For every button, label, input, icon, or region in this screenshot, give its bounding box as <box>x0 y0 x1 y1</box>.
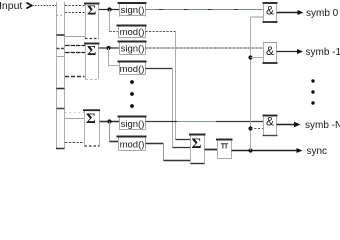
junction node <box>107 119 111 123</box>
wire tap7 to sumN <box>65 112 85 114</box>
wire tap2 to sum1 <box>65 12 85 14</box>
wire tap8 to sumN <box>65 118 85 120</box>
wire sync output <box>232 150 298 152</box>
junction node <box>248 126 252 130</box>
summation block sumN <box>83 110 100 146</box>
svg-text:sync: sync <box>307 146 328 157</box>
wire feedback to and2 <box>251 57 264 59</box>
svg-text:&: & <box>266 44 274 58</box>
wire feedback to and1 <box>251 16 264 18</box>
AND gate 2 <box>263 42 278 64</box>
summation block sum1 <box>84 4 100 39</box>
svg-text:sign(): sign() <box>121 44 145 55</box>
svg-text:Σ: Σ <box>192 136 202 152</box>
register cell divider <box>57 34 65 36</box>
mod() block N <box>117 136 147 151</box>
svg-text:sign(): sign() <box>121 5 145 16</box>
svg-text:&: & <box>266 114 274 128</box>
svg-text:&: & <box>266 3 274 17</box>
wire tap4 to sum2 <box>65 45 85 47</box>
register cell divider <box>57 108 65 110</box>
register cell divider (faint dots) <box>57 15 64 17</box>
svg-text:symb -N: symb -N <box>305 120 340 131</box>
wire tap9 to sumN <box>65 142 85 144</box>
wire tap3 to sum1 <box>65 36 85 38</box>
wire sum2 to sign2 <box>99 47 120 49</box>
wire junction down to mod1 <box>109 10 111 32</box>
wire signN to andN <box>146 121 178 123</box>
vertical ellipsis left <box>130 80 134 84</box>
wire and2 output <box>277 51 298 53</box>
wire modN to bottom sum <box>146 143 164 145</box>
shift register (tapped delay line) <box>56 2 65 149</box>
mod() block 2 <box>118 61 147 75</box>
wire sum1 to sign1 <box>99 9 119 11</box>
arrowhead symb 0 <box>298 10 304 15</box>
svg-text:mod(): mod() <box>120 27 145 38</box>
sign() block 1 <box>118 3 147 17</box>
register cell divider <box>57 48 65 50</box>
wire sumN to signN <box>100 121 120 123</box>
wire junction down to mod2 <box>109 48 120 66</box>
svg-text:sign(): sign() <box>121 119 145 130</box>
svg-text:symb 0: symb 0 <box>306 8 339 19</box>
arrowhead symb -1 <box>297 49 303 54</box>
wire tap5 to sum2 <box>65 52 85 54</box>
wire sync feedback vertical <box>250 17 252 151</box>
wire junction down to modN <box>109 122 111 142</box>
wire bottom sum to comparator <box>205 149 219 151</box>
wire sign1 to and1 <box>146 9 264 11</box>
junction node sync <box>248 148 252 152</box>
summation block bottom (sync) <box>189 134 206 164</box>
wire mod2 to bottom sum <box>146 68 173 70</box>
AND gate N <box>263 114 278 136</box>
comparator block (pi) <box>216 139 233 159</box>
input arrowhead <box>27 3 32 8</box>
vertical ellipsis right <box>311 79 314 82</box>
wire sign2 to and2 <box>146 47 264 49</box>
register cell divider <box>57 56 65 58</box>
svg-text:Σ: Σ <box>87 4 96 19</box>
wire feedback to andN <box>251 128 264 130</box>
arrowhead symb -N <box>294 122 301 127</box>
mod() block 1 <box>117 25 147 38</box>
junction node <box>106 46 110 50</box>
wire and1 output <box>277 12 299 14</box>
wire tap1 to sum1 <box>65 5 85 7</box>
svg-text:mod(): mod() <box>120 140 145 151</box>
wire input dashed <box>32 5 57 7</box>
summation block sum2 <box>84 43 100 80</box>
junction node <box>107 7 111 11</box>
svg-text:symb -1: symb -1 <box>306 47 340 58</box>
svg-text:Input: Input <box>0 0 22 12</box>
wire andN output <box>277 124 296 126</box>
svg-text:mod(): mod() <box>120 64 145 75</box>
wire tap6 to sum2 <box>65 76 85 78</box>
wire mod1 to bottom sum <box>146 31 177 33</box>
svg-text:Σ: Σ <box>86 111 96 127</box>
sign() block 2 <box>118 41 147 55</box>
junction node <box>248 55 252 59</box>
sign() block N <box>118 116 147 130</box>
svg-text:Σ: Σ <box>87 44 96 59</box>
output label sync <box>297 148 303 153</box>
AND gate 1 <box>263 3 278 23</box>
register cell divider <box>57 88 65 90</box>
